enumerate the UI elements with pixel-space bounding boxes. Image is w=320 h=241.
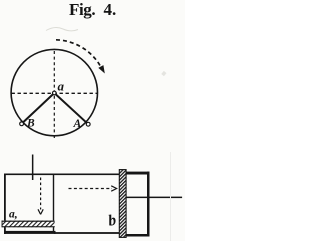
hatched strip a: [2, 221, 55, 228]
faint page rule: [170, 152, 171, 241]
svg-text:A: A: [73, 118, 82, 130]
cylinder top edge (left section): [4, 174, 120, 176]
svg-text:Fig.: Fig.: [69, 0, 95, 19]
crank circle: [11, 49, 97, 135]
crank arm to B: [22, 93, 54, 123]
dashed rotation arc arrow: [56, 40, 102, 69]
vertical dashed centerline: [53, 51, 55, 140]
inner partition line: [53, 174, 54, 234]
crank arm to A: [54, 93, 88, 124]
cylinder right wall: [147, 172, 150, 237]
cylinder bottom edge (right section): [126, 234, 149, 237]
svg-text:a,: a,: [9, 209, 18, 221]
svg-text:4.: 4.: [104, 0, 117, 19]
node A endpoint: [86, 122, 90, 126]
center pivot node a: [53, 91, 57, 95]
dashed down arrow: [40, 178, 42, 210]
faint pencil squiggle under title: [46, 28, 78, 31]
piston rod: [126, 197, 182, 199]
node B endpoint: [20, 122, 24, 126]
horizontal dashed centerline: [12, 92, 98, 94]
cylinder bottom edge (mid section): [54, 232, 120, 234]
svg-text:B: B: [26, 118, 35, 130]
faint smudge right of circle: [161, 71, 166, 76]
svg-text:a: a: [58, 79, 65, 94]
dashed right arrow: [69, 188, 113, 190]
cylinder top edge (right section): [126, 172, 149, 175]
rotation arrowhead: [98, 65, 105, 73]
cylinder bottom edge (left section): [5, 231, 56, 234]
cylinder left wall: [4, 174, 6, 235]
piston b (hatched): [119, 170, 126, 238]
valve stem line: [32, 155, 34, 181]
